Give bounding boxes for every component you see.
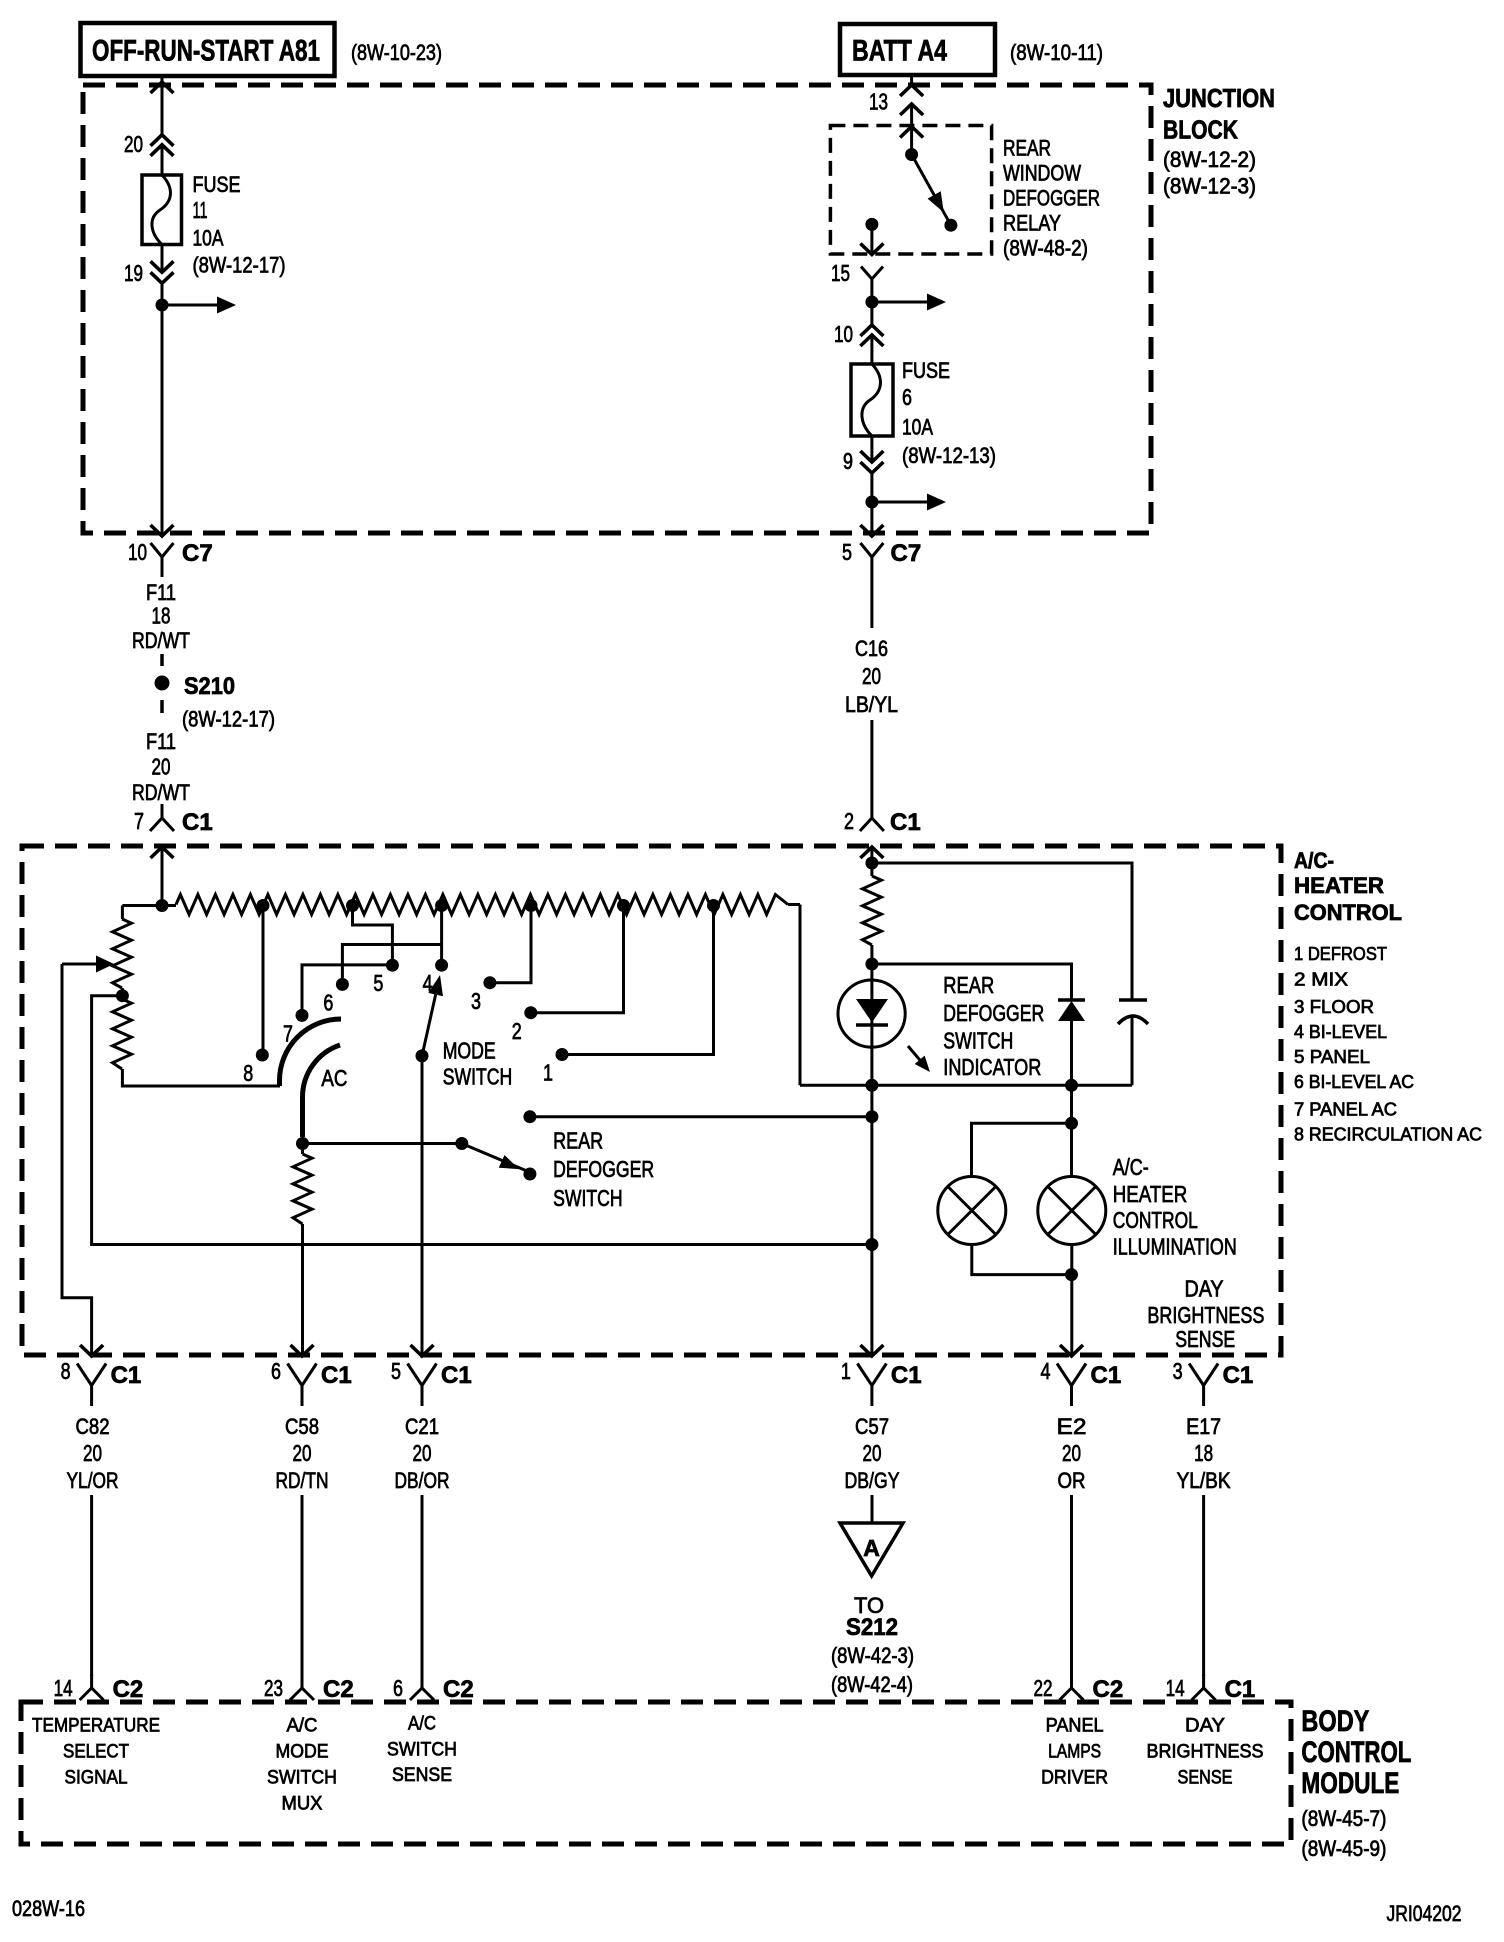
svg-text:A/C: A/C	[287, 1716, 318, 1737]
label REAR DEFOGGER SWITCH	[553, 1128, 654, 1211]
svg-text:SENSE: SENSE	[1178, 1768, 1233, 1789]
wire below fuse 6	[870, 436, 873, 534]
reference (8W-10-11)	[1010, 40, 1103, 65]
relay input arrow at relay top	[900, 127, 923, 138]
wire tap to contact 8	[262, 906, 265, 1050]
svg-text:7 PANEL AC: 7 PANEL AC	[1294, 1100, 1397, 1120]
mode switch blade with arrow	[422, 975, 443, 1056]
wire label C16 20 LB/YL	[845, 636, 898, 717]
svg-text:19: 19	[124, 260, 143, 286]
defogger output node	[865, 1110, 878, 1123]
pin label 5 C7	[842, 539, 921, 567]
fuse 6 value label	[902, 358, 996, 468]
svg-text:2: 2	[512, 1018, 522, 1044]
svg-text:SENSE: SENSE	[1175, 1326, 1235, 1352]
ladder tap node for contact 2	[617, 899, 630, 912]
center tap wire to temperature signal node	[92, 996, 869, 1245]
svg-text:DB/GY: DB/GY	[845, 1468, 900, 1493]
label MODE SWITCH	[443, 1038, 513, 1090]
svg-text:SENSE: SENSE	[392, 1765, 452, 1786]
wire from contact 1 to ladder tap	[562, 906, 714, 1055]
relay switch contact	[944, 219, 957, 232]
indicator pointing arrow	[908, 1046, 930, 1072]
svg-text:20: 20	[413, 1440, 432, 1466]
boundary arrow at junction block bottom (battery wire)	[860, 525, 883, 536]
in-line connector chevrons pin 10 (battery)	[860, 325, 883, 346]
svg-text:A/C-: A/C-	[1294, 848, 1334, 873]
ladder tap node for contact 3	[525, 899, 538, 912]
svg-text:(8W-12-17): (8W-12-17)	[182, 707, 275, 732]
svg-text:4 BI-LEVEL: 4 BI-LEVEL	[1294, 1022, 1387, 1042]
label DAY BRIGHTNESS SENSE (inside control)	[1147, 1275, 1264, 1352]
svg-text:CONTROL: CONTROL	[1113, 1207, 1198, 1233]
svg-text:18: 18	[1194, 1440, 1213, 1466]
svg-text:DB/OR: DB/OR	[395, 1468, 450, 1493]
svg-text:FUSE: FUSE	[193, 172, 241, 197]
pin label 6 C1	[271, 1358, 352, 1389]
svg-text:SELECT: SELECT	[63, 1742, 129, 1763]
wire pin 6 to BCM pin 23 C2	[301, 1495, 304, 1676]
AC selector arc (outer)	[280, 1019, 342, 1086]
wire label C82 20 YL/OR	[67, 1414, 119, 1493]
svg-text:BRIGHTNESS: BRIGHTNESS	[1147, 1742, 1264, 1763]
BCM pin label 14 C2	[54, 1675, 144, 1703]
svg-text:C82: C82	[76, 1414, 110, 1439]
wire pin 5 to BCM pin 6 C2	[421, 1495, 424, 1676]
connector fork 6 C1	[288, 1364, 317, 1407]
svg-text:ILLUMINATION: ILLUMINATION	[1113, 1234, 1237, 1260]
battery feed node inside control	[865, 857, 878, 870]
wire from AC node to rear defogger switch pivot	[303, 1142, 462, 1145]
AC dropping resistor	[293, 1144, 312, 1356]
svg-text:(8W-42-3): (8W-42-3)	[831, 1643, 914, 1668]
drawing number JRI04202	[1387, 1901, 1462, 1926]
wire from label C16 to connector 2 C1	[870, 720, 873, 804]
exit arrow pin 1 C1	[860, 1345, 883, 1356]
temperature signal node	[865, 1238, 878, 1251]
svg-text:6: 6	[393, 1675, 403, 1701]
svg-text:10A: 10A	[902, 415, 933, 440]
svg-text:S210: S210	[184, 673, 235, 700]
temperature potentiometer lower half	[113, 999, 281, 1086]
BCM label DAY BRIGHTNESS SENSE	[1147, 1716, 1264, 1789]
potentiometer center tap node	[116, 989, 129, 1002]
BCM connector fork 14 C1	[1192, 1674, 1216, 1700]
svg-text:13: 13	[869, 89, 888, 115]
feed wire to left lamp	[972, 1123, 1072, 1176]
svg-text:6 BI-LEVEL AC: 6 BI-LEVEL AC	[1294, 1072, 1414, 1092]
potentiometer wiper arrow	[62, 956, 114, 973]
svg-text:RELAY: RELAY	[1003, 211, 1061, 236]
entry arrow into A/C-heater control (left wire)	[151, 846, 174, 906]
wire label E17 18 YL/BK	[1177, 1414, 1231, 1493]
svg-text:MODULE: MODULE	[1301, 1767, 1399, 1800]
svg-text:OR: OR	[1058, 1468, 1086, 1493]
svg-text:RD/TN: RD/TN	[276, 1468, 329, 1493]
svg-text:BRIGHTNESS: BRIGHTNESS	[1147, 1302, 1264, 1328]
fuse 11 value label	[193, 172, 286, 278]
right lamp return wire to pin 4 C1	[1070, 1245, 1073, 1356]
capacitor	[1118, 1000, 1148, 1085]
wire diode branch down to lamps	[1070, 1085, 1073, 1176]
wire label C58 20 RD/TN	[276, 1414, 329, 1493]
mode contact 5	[373, 959, 399, 996]
BCM label TEMPERATURE SELECT SIGNAL	[32, 1716, 160, 1789]
svg-text:8: 8	[61, 1358, 71, 1384]
svg-text:C2: C2	[113, 1676, 144, 1703]
pin label 5 C1	[391, 1358, 472, 1389]
exit arrow pin 5 C1	[411, 1345, 434, 1356]
svg-text:5: 5	[373, 970, 383, 996]
connector fork 5 C1	[408, 1364, 437, 1407]
pin label 7 C1	[134, 808, 213, 836]
wire between connector and label C16	[870, 577, 873, 628]
wire from BATT A4 into junction block	[910, 75, 913, 155]
svg-text:AC: AC	[321, 1065, 347, 1091]
svg-text:INDICATOR: INDICATOR	[943, 1054, 1041, 1080]
svg-text:6: 6	[323, 990, 333, 1016]
svg-text:A: A	[863, 1535, 880, 1561]
svg-text:F11: F11	[146, 580, 176, 605]
svg-text:20: 20	[124, 131, 143, 157]
svg-text:SIGNAL: SIGNAL	[65, 1768, 128, 1789]
relay output terminal	[865, 218, 878, 253]
svg-text:1 DEFROST: 1 DEFROST	[1294, 944, 1387, 964]
svg-text:C1: C1	[1091, 1362, 1122, 1389]
ladder tap node for contact 8	[257, 899, 270, 912]
svg-text:REAR: REAR	[1003, 135, 1051, 160]
svg-text:(8W-48-2): (8W-48-2)	[1003, 236, 1088, 261]
rear defogger switch moving contact	[523, 1168, 536, 1181]
connector fork 7 C1	[150, 804, 174, 831]
svg-text:(8W-42-4): (8W-42-4)	[831, 1672, 913, 1697]
BCM connector fork 22 C2	[1060, 1674, 1084, 1700]
svg-text:LAMPS: LAMPS	[1048, 1742, 1101, 1763]
wire rail to defogger output node	[870, 1085, 873, 1355]
wire from contact 2 to ladder tap	[531, 906, 624, 1013]
wire tap to contact 4	[440, 906, 443, 960]
mode switch pivot	[416, 1049, 429, 1062]
svg-text:DEFOGGER: DEFOGGER	[553, 1156, 654, 1182]
svg-text:2 MIX: 2 MIX	[1294, 970, 1348, 990]
svg-text:C58: C58	[285, 1414, 319, 1439]
svg-text:20: 20	[862, 663, 881, 689]
svg-text:(8W-45-9): (8W-45-9)	[1301, 1836, 1386, 1861]
wire tap to contact 5	[353, 906, 393, 960]
body control module label	[1301, 1705, 1411, 1861]
AC node	[296, 1137, 309, 1150]
svg-text:C2: C2	[443, 1676, 474, 1703]
pin label 10 C7	[128, 539, 213, 567]
node LED to rail	[865, 1079, 878, 1092]
node where ignition wire meets resistor ladder	[156, 899, 169, 912]
svg-text:BLOCK: BLOCK	[1163, 115, 1238, 145]
ladder tap node for contact 5	[346, 899, 359, 912]
mode position legend list	[1294, 944, 1482, 1145]
svg-text:HEATER: HEATER	[1294, 873, 1384, 898]
svg-text:HEATER: HEATER	[1113, 1181, 1188, 1207]
ladder tap node for contact 1	[707, 899, 720, 912]
dashed wire out of splice S210	[160, 700, 164, 713]
wire label E2 20 OR	[1057, 1414, 1087, 1493]
svg-text:DAY: DAY	[1185, 1275, 1224, 1301]
svg-text:3: 3	[471, 988, 481, 1014]
svg-text:C1: C1	[891, 1362, 922, 1389]
mode contact 4	[423, 959, 449, 996]
svg-text:C7: C7	[182, 540, 213, 567]
svg-text:C1: C1	[321, 1362, 352, 1389]
svg-text:SWITCH: SWITCH	[943, 1028, 1013, 1054]
svg-text:C7: C7	[891, 540, 922, 567]
exit arrow pin 4 C1	[1060, 1345, 1083, 1356]
svg-text:SWITCH: SWITCH	[553, 1185, 623, 1211]
svg-text:15: 15	[831, 260, 850, 286]
rear defogger switch output contact	[523, 1110, 536, 1123]
connector fork 10 C7	[151, 543, 174, 577]
fuse 6 body	[851, 364, 893, 436]
wire pin 4 to BCM pin 22 C2	[1070, 1495, 1073, 1676]
entry arrow into A/C-heater control (battery wire)	[860, 846, 883, 863]
pin label 8 C1	[61, 1358, 142, 1389]
wire from node to fuse 6	[870, 302, 873, 364]
label REAR DEFOGGER SWITCH INDICATOR	[943, 972, 1044, 1080]
svg-text:YL/BK: YL/BK	[1177, 1468, 1231, 1493]
wire pin 1 to off-page reference A	[871, 1495, 874, 1523]
svg-text:23: 23	[264, 1675, 283, 1701]
wire label F11 20 RD/WT	[132, 729, 190, 805]
connector fork 4 C1	[1057, 1364, 1086, 1407]
svg-text:C1: C1	[890, 809, 921, 836]
node above LED	[865, 958, 878, 971]
svg-text:C1: C1	[1223, 1362, 1254, 1389]
svg-text:C16: C16	[855, 636, 888, 661]
relay switch blade with arrow	[912, 155, 951, 226]
mode contact 8	[243, 1049, 268, 1087]
svg-text:DEFOGGER: DEFOGGER	[943, 1000, 1044, 1026]
temperature potentiometer upper half	[113, 906, 132, 991]
svg-text:TEMPERATURE: TEMPERATURE	[32, 1716, 160, 1737]
wire pin 8 to BCM pin 14 C2	[90, 1495, 93, 1676]
connector fork 15	[861, 267, 883, 303]
label AC	[321, 1065, 347, 1091]
pin label 4 C1	[1041, 1358, 1122, 1389]
wire down to connector C7 pin 10	[161, 305, 164, 534]
rear defogger switch pivot	[455, 1137, 468, 1150]
svg-text:REAR: REAR	[553, 1128, 603, 1154]
ladder tap node for contact 4	[435, 899, 448, 912]
svg-text:8: 8	[243, 1060, 253, 1086]
svg-text:DEFOGGER: DEFOGGER	[1003, 186, 1100, 211]
svg-text:9: 9	[843, 448, 853, 474]
reference (8W-10-23)	[351, 40, 442, 65]
BCM pin label 23 C2	[264, 1675, 354, 1703]
svg-text:11: 11	[193, 197, 208, 223]
svg-text:WINDOW: WINDOW	[1003, 161, 1081, 186]
svg-text:BODY: BODY	[1301, 1705, 1369, 1738]
svg-text:FUSE: FUSE	[902, 358, 950, 383]
BCM connector fork 6 C2	[410, 1674, 434, 1700]
pin label 20	[124, 131, 143, 157]
svg-text:JRI04202: JRI04202	[1387, 1901, 1462, 1926]
svg-text:YL/OR: YL/OR	[67, 1468, 119, 1493]
svg-text:C57: C57	[855, 1414, 889, 1439]
svg-text:C1: C1	[182, 809, 213, 836]
svg-text:S212: S212	[846, 1614, 898, 1641]
lamp feed node	[1065, 1117, 1078, 1130]
left lamp return wire	[972, 1245, 1072, 1275]
svg-text:DRIVER: DRIVER	[1041, 1768, 1108, 1789]
exit arrow pin 8 C1	[80, 1345, 103, 1356]
svg-text:(8W-10-11): (8W-10-11)	[1010, 40, 1103, 65]
body control module boundary (dashed)	[21, 1702, 1291, 1844]
svg-text:6: 6	[271, 1358, 281, 1384]
svg-text:20: 20	[83, 1440, 102, 1466]
svg-text:20: 20	[863, 1440, 882, 1466]
svg-text:MODE: MODE	[443, 1038, 496, 1064]
junction node with feed arrow (battery lower)	[865, 494, 946, 511]
node diode to rail	[1065, 1079, 1078, 1092]
wire label C57 20 DB/GY	[845, 1414, 900, 1493]
svg-text:SWITCH: SWITCH	[387, 1740, 457, 1761]
svg-text:REAR: REAR	[943, 972, 994, 998]
wire from contact 7 to contact 5	[302, 965, 391, 1009]
indicator dropping resistor	[862, 863, 881, 980]
wire from node to diode branch	[872, 964, 1072, 1000]
connector fork 8 C1	[77, 1364, 106, 1407]
junction block boundary (dashed)	[83, 85, 1151, 533]
mode switch common wire to pin 5 C1	[421, 1056, 424, 1355]
in-line connector chevrons pin 9	[860, 451, 883, 473]
svg-text:MUX: MUX	[282, 1794, 323, 1815]
svg-text:(8W-12-2): (8W-12-2)	[1163, 147, 1256, 172]
svg-text:SWITCH: SWITCH	[267, 1768, 337, 1789]
pin label 15	[831, 260, 850, 286]
BCM connector fork 14 C2	[80, 1674, 104, 1700]
svg-text:3 FLOOR: 3 FLOOR	[1294, 997, 1374, 1017]
connector fork 2 C1	[860, 804, 884, 831]
svg-text:18: 18	[152, 603, 171, 629]
illumination lamp right	[1038, 1177, 1106, 1245]
pin label 2 C1	[844, 808, 921, 836]
wire label C21 20 DB/OR	[395, 1414, 450, 1493]
svg-text:028W-16: 028W-16	[12, 1896, 85, 1921]
svg-text:3: 3	[1173, 1358, 1183, 1384]
svg-text:BATT A4: BATT A4	[852, 35, 947, 68]
wire from contact 3 to ladder tap	[490, 906, 531, 983]
lamp return node	[1065, 1268, 1078, 1281]
junction node with feed arrow (left)	[156, 297, 237, 314]
svg-text:14: 14	[1166, 1675, 1185, 1701]
wire from fuse 11 to junction node	[161, 245, 164, 306]
A/C-heater control boundary (dashed)	[22, 846, 1281, 1355]
svg-text:7: 7	[134, 808, 144, 834]
svg-text:4: 4	[1041, 1358, 1051, 1384]
svg-text:(8W-45-7): (8W-45-7)	[1301, 1806, 1386, 1831]
junction block label	[1163, 83, 1275, 199]
A/C-heater control label	[1294, 848, 1402, 925]
in-line connector chevrons pin 13	[900, 85, 923, 115]
pin label 1 C1	[841, 1358, 922, 1389]
svg-text:2: 2	[844, 808, 854, 834]
mode contact 7	[283, 1009, 309, 1047]
svg-text:RD/WT: RD/WT	[132, 780, 190, 805]
svg-text:C2: C2	[323, 1676, 354, 1703]
wiper wire to pin 8 C1	[62, 964, 92, 1355]
relay label REAR WINDOW DEFOGGER RELAY (8W-48-2)	[1003, 135, 1100, 260]
svg-text:C1: C1	[441, 1362, 472, 1389]
svg-text:6: 6	[902, 384, 912, 410]
svg-text:(8W-12-13): (8W-12-13)	[902, 443, 996, 468]
svg-text:MODE: MODE	[276, 1742, 329, 1763]
BCM label PANEL LAMPS DRIVER	[1041, 1716, 1108, 1789]
BCM pin label 14 C1	[1166, 1675, 1256, 1703]
svg-text:20: 20	[1062, 1440, 1081, 1466]
label TO S212	[831, 1593, 914, 1697]
svg-text:1: 1	[841, 1358, 851, 1384]
svg-text:C21: C21	[405, 1414, 439, 1439]
svg-text:1: 1	[543, 1060, 553, 1086]
svg-text:E2: E2	[1057, 1414, 1087, 1439]
sheet number 028W-16	[12, 1896, 85, 1921]
junction node with feed arrow (battery upper)	[865, 294, 946, 311]
svg-text:F11: F11	[146, 729, 176, 754]
relay output arrow at relay bottom	[860, 244, 883, 255]
mode contact 1	[543, 1048, 569, 1086]
pin label 10 (battery)	[834, 321, 853, 347]
svg-text:5: 5	[842, 539, 852, 565]
svg-text:8 RECIRCULATION AC: 8 RECIRCULATION AC	[1294, 1125, 1482, 1145]
rear window defogger relay boundary (dashed)	[830, 126, 991, 255]
label A/C-HEATER CONTROL ILLUMINATION	[1113, 1154, 1237, 1260]
ladder right end drop wire	[799, 905, 802, 1086]
mode contact 2	[512, 1006, 538, 1044]
wire from contact 6 to contact 4 tap	[342, 945, 441, 979]
svg-text:A/C-: A/C-	[1113, 1154, 1149, 1180]
svg-text:CONTROL: CONTROL	[1294, 900, 1402, 925]
exit arrow pin 6 C1	[291, 1345, 314, 1356]
svg-text:10: 10	[128, 539, 147, 565]
pin label 19	[124, 260, 143, 286]
boundary arrow at junction block top (left wire)	[151, 82, 174, 93]
svg-text:DAY: DAY	[1185, 1716, 1225, 1737]
svg-text:5 PANEL: 5 PANEL	[1294, 1047, 1370, 1067]
connector fork 3 C1	[1189, 1364, 1218, 1407]
svg-text:A/C: A/C	[408, 1714, 436, 1735]
in-line connector chevrons pin 19	[151, 261, 174, 283]
svg-text:SWITCH: SWITCH	[443, 1064, 513, 1090]
power source box BATT A4	[840, 24, 995, 75]
BCM pin label 22 C2	[1034, 1675, 1124, 1703]
rear defogger switch indicator LED	[838, 980, 905, 1085]
mode contact 6	[323, 978, 349, 1016]
svg-text:OFF-RUN-START A81: OFF-RUN-START A81	[92, 35, 320, 68]
wire label F11 18 RD/WT	[132, 580, 190, 653]
svg-text:(8W-12-17): (8W-12-17)	[193, 253, 286, 278]
off-page reference triangle A to S212	[840, 1523, 903, 1576]
dashed wire into splice S210	[160, 654, 164, 666]
wire from defogger switch contact to indicator branch	[530, 1115, 869, 1118]
BCM label A/C MODE SWITCH MUX	[267, 1716, 337, 1815]
splice S210	[155, 673, 276, 732]
BCM pin label 6 C2	[393, 1675, 474, 1703]
BCM connector fork 23 C2	[290, 1674, 314, 1700]
AC selector arc (inner) with stem	[303, 1045, 341, 1137]
connector fork 1 C1	[857, 1364, 886, 1407]
wire from OFF-RUN-START A81 into junction block	[161, 76, 164, 175]
svg-text:22: 22	[1034, 1675, 1053, 1701]
svg-text:C1: C1	[111, 1362, 142, 1389]
svg-text:RD/WT: RD/WT	[132, 628, 190, 653]
